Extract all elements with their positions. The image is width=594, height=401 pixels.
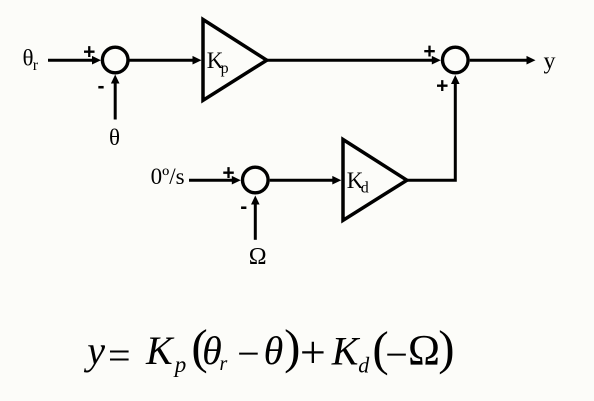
svg-text:): ) <box>438 320 454 375</box>
wire Omega up into S3 <box>251 196 260 240</box>
equation y = Kp(theta_r - theta) + Kd(-Omega) <box>83 319 454 378</box>
svg-text:+: + <box>423 40 435 63</box>
svg-text:y: y <box>83 328 105 373</box>
wire theta up into S1 <box>111 75 120 120</box>
svg-text:0º/s: 0º/s <box>151 164 185 189</box>
svg-text:Ω: Ω <box>249 244 267 270</box>
wire S1 to Kp <box>130 56 202 65</box>
svg-text:−: − <box>237 331 260 376</box>
wire S2 to output y <box>470 56 536 65</box>
summing junction S3 <box>243 167 269 193</box>
svg-text:-: - <box>240 196 247 219</box>
svg-text:p: p <box>173 352 187 377</box>
svg-text:+: + <box>83 41 95 64</box>
svg-text:y: y <box>544 49 556 75</box>
summing junction S2 <box>443 47 469 73</box>
svg-text:θ: θ <box>109 125 120 150</box>
wire Kd output up to S2 lower input <box>405 75 460 180</box>
svg-text:−: − <box>385 332 408 377</box>
svg-text:+: + <box>222 161 234 184</box>
svg-text:r: r <box>33 57 39 74</box>
svg-text:d: d <box>361 180 369 197</box>
svg-text:): ) <box>284 319 300 374</box>
svg-text:p: p <box>221 60 229 77</box>
svg-text:+: + <box>300 326 326 377</box>
svg-text:Ω: Ω <box>408 328 440 375</box>
label Kd <box>347 168 369 197</box>
svg-text:r: r <box>220 353 228 375</box>
svg-text:+: + <box>436 75 448 98</box>
label Kp <box>207 48 229 77</box>
node theta_r input label <box>23 46 39 74</box>
wire 0deg/s to summing junction S3 <box>189 176 241 185</box>
svg-text:=: = <box>108 333 131 378</box>
gain block Kd (triangle) <box>343 140 407 221</box>
wire theta_r to summing junction S1 <box>48 56 101 65</box>
gain block Kp (triangle) <box>203 20 267 101</box>
wire Kp to summing junction S2 <box>265 56 441 65</box>
wire S3 to Kd <box>270 176 342 185</box>
svg-text:-: - <box>98 75 105 98</box>
svg-text:θ: θ <box>264 328 284 373</box>
svg-text:d: d <box>358 352 370 377</box>
summing junction S1 <box>102 47 128 73</box>
svg-text:K: K <box>331 329 361 374</box>
svg-text:K: K <box>145 328 175 373</box>
